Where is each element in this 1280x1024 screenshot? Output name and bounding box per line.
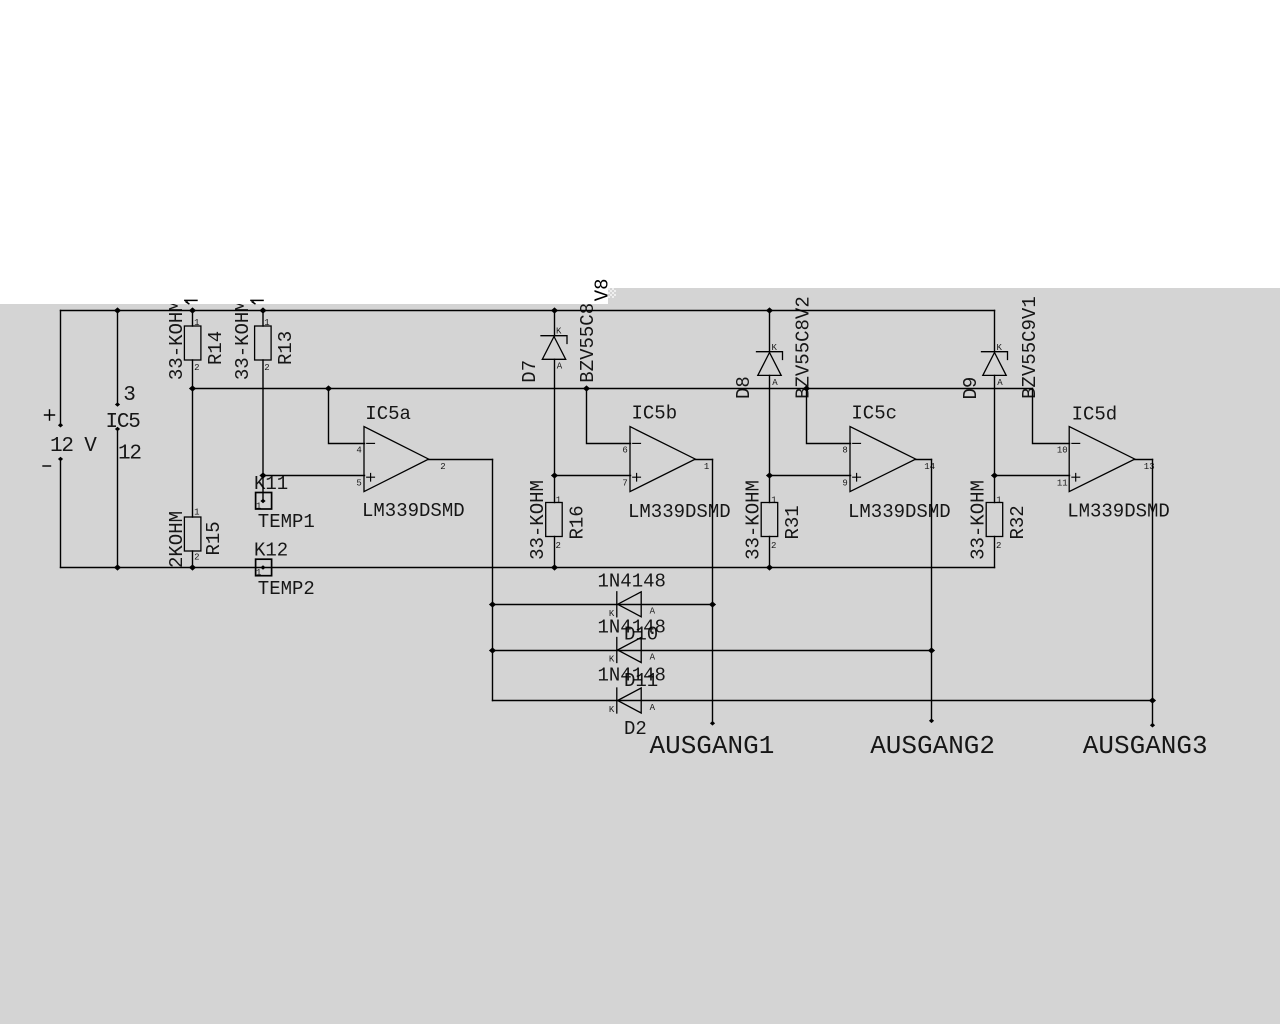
zener diode D8 symbol <box>757 352 783 376</box>
svg-text:R31: R31 <box>782 505 804 539</box>
wire K11 to IC5a plus input <box>263 475 365 477</box>
svg-text:2: 2 <box>556 541 561 551</box>
node junction row2 right IC5c out <box>928 647 935 653</box>
stale checker artifact <box>608 288 616 298</box>
node junction R15 on bottom rail <box>189 564 196 570</box>
battery minus sign <box>43 465 51 467</box>
wire IC5 pin12 stub <box>117 429 119 568</box>
svg-text:D7: D7 <box>519 360 541 383</box>
wire D7 top stub <box>554 311 556 337</box>
svg-text:BZV55C9V1: BZV55C9V1 <box>1019 296 1041 399</box>
node junction R16 on bottom rail <box>551 564 558 570</box>
node junction IC5a minus on mid rail <box>325 385 332 391</box>
node junction IC5c minus on mid rail <box>803 385 810 391</box>
svg-text:9: 9 <box>842 478 847 488</box>
wire diode row 2 <box>493 650 932 652</box>
svg-text:33-KOHM: 33-KOHM <box>527 480 549 560</box>
wire R31 top stub <box>769 476 771 503</box>
wire IC5b minus drop <box>587 389 631 444</box>
op-amp IC5a plus glyph <box>367 473 375 481</box>
svg-text:D9: D9 <box>960 377 982 400</box>
resistor R31 body <box>761 503 778 537</box>
op-amp IC5c minus glyph <box>853 442 861 444</box>
op-amp IC5d minus glyph <box>1072 442 1080 444</box>
wire IC5b output drop AUSGANG1 <box>712 460 714 724</box>
svg-text:D8: D8 <box>733 376 755 399</box>
node junction IC5 pin12 on bottom rail <box>114 564 121 570</box>
svg-text:R14: R14 <box>205 331 227 365</box>
node K12 pin 1 on bottom rail <box>260 565 265 570</box>
wire R14 top stub <box>192 311 194 327</box>
svg-text:2: 2 <box>440 462 445 472</box>
svg-text:LM339DSMD: LM339DSMD <box>1067 501 1170 523</box>
svg-text:LM339DSMD: LM339DSMD <box>362 500 465 522</box>
wire IC5c minus drop <box>807 389 851 444</box>
node battery plus terminal <box>58 423 63 428</box>
resistor R14 body <box>184 326 201 360</box>
svg-text:A: A <box>772 378 778 388</box>
wire R15 bottom stub <box>192 551 194 568</box>
wire IC5a output drop <box>492 460 494 701</box>
diode D10 symbol <box>617 592 641 617</box>
wire R13 to node TEMP1 <box>262 360 264 476</box>
svg-text:2: 2 <box>194 552 199 562</box>
wire D7 anode to node <box>554 359 556 475</box>
node battery minus terminal <box>58 457 63 462</box>
svg-text:K: K <box>772 343 778 353</box>
wire R16 bottom stub <box>554 537 556 568</box>
wire IC5 pin3 stub <box>117 311 119 405</box>
op-amp IC5a triangle <box>364 427 429 492</box>
svg-text:A: A <box>557 361 563 371</box>
battery plus sign <box>45 410 55 420</box>
wire node to IC5d plus input <box>995 475 1070 477</box>
svg-text:33-KOHM: 33-KOHM <box>232 300 254 380</box>
node junction R31 top <box>766 472 773 478</box>
svg-text:TEMP1: TEMP1 <box>258 511 315 533</box>
svg-text:AUSGANG3: AUSGANG3 <box>1083 731 1208 761</box>
svg-text:33-KOHM: 33-KOHM <box>968 480 990 560</box>
wire IC5d output drop AUSGANG3 <box>1152 460 1154 726</box>
svg-text:AUSGANG2: AUSGANG2 <box>870 731 995 761</box>
op-amp IC5d triangle <box>1069 427 1135 492</box>
svg-text:1: 1 <box>556 496 561 506</box>
node junction D8 on top rail <box>766 307 773 313</box>
svg-text:1: 1 <box>194 508 199 518</box>
svg-text:5: 5 <box>356 478 361 488</box>
wire R32 top stub <box>994 476 996 503</box>
svg-text:BZV55C8V2: BZV55C8V2 <box>792 296 814 399</box>
svg-text:1N4148: 1N4148 <box>598 570 666 592</box>
svg-text:6: 6 <box>622 446 627 456</box>
node AUSGANG2 end <box>929 719 934 724</box>
svg-text:1: 1 <box>256 568 261 578</box>
node AUSGANG1 end <box>710 721 715 726</box>
svg-text:1: 1 <box>264 318 269 328</box>
svg-text:33-KOHM: 33-KOHM <box>166 300 188 380</box>
svg-text:11: 11 <box>1057 478 1068 488</box>
svg-text:7: 7 <box>622 478 627 488</box>
svg-text:1: 1 <box>704 462 709 472</box>
svg-text:TEMP2: TEMP2 <box>258 578 315 600</box>
diode D2 symbol <box>617 688 641 713</box>
wire battery minus vertical <box>60 459 62 567</box>
svg-text:IC5d: IC5d <box>1072 404 1118 426</box>
svg-text:14: 14 <box>924 462 935 472</box>
svg-text:K: K <box>556 327 562 337</box>
svg-text:A: A <box>650 607 656 617</box>
node junction IC5 pin3 on top rail <box>114 307 121 313</box>
node junction row2 left IC5a out <box>489 647 496 653</box>
svg-text:1: 1 <box>771 496 776 506</box>
wire R14 bottom stub <box>192 360 194 389</box>
op-amp IC5c plus glyph <box>853 473 861 481</box>
resistor R16 body <box>546 503 563 537</box>
svg-text:K12: K12 <box>254 540 288 562</box>
wire node to IC5b plus input <box>555 475 631 477</box>
node junction D7 on top rail <box>551 307 558 313</box>
svg-text:1N4148: 1N4148 <box>598 665 666 687</box>
svg-text:IC5c: IC5c <box>851 403 897 425</box>
svg-text:AUSGANG1: AUSGANG1 <box>650 731 775 761</box>
diode D11 symbol <box>617 638 641 663</box>
svg-text:2: 2 <box>771 541 776 551</box>
wire D9 anode to node <box>994 375 996 475</box>
wire D8 top stub <box>769 311 771 352</box>
svg-text:LM339DSMD: LM339DSMD <box>848 501 951 523</box>
wire diode row 3 <box>493 700 1153 702</box>
node junction R31 on bottom rail <box>766 564 773 570</box>
svg-text:13: 13 <box>1144 462 1155 472</box>
wire R16 top stub <box>554 476 556 503</box>
wire R15 top stub <box>192 389 194 518</box>
svg-text:2: 2 <box>996 541 1001 551</box>
svg-text:K11: K11 <box>254 473 288 495</box>
zener diode D7 symbol <box>541 336 567 360</box>
svg-text:R13: R13 <box>275 331 297 365</box>
svg-text:IC5b: IC5b <box>632 403 678 425</box>
node junction R32 top <box>991 472 998 478</box>
gray canvas right <box>608 288 1280 1024</box>
svg-text:2: 2 <box>264 363 269 373</box>
svg-text:2: 2 <box>194 363 199 373</box>
wire R13 top stub <box>262 311 264 327</box>
op-amp IC5b minus glyph <box>633 442 641 444</box>
svg-text:K: K <box>609 655 615 665</box>
svg-text:K: K <box>609 705 615 715</box>
resistor R15 body <box>184 517 201 551</box>
svg-text:IC5a: IC5a <box>365 403 411 425</box>
svg-text:D2: D2 <box>624 718 647 740</box>
op-amp IC5b plus glyph <box>633 473 641 481</box>
wire IC5a minus drop <box>329 389 365 444</box>
wire IC5d minus input from rail end <box>1033 389 1070 444</box>
svg-text:1: 1 <box>996 496 1001 506</box>
svg-text:12: 12 <box>118 443 141 466</box>
node TEMP1 junction K11 <box>259 472 266 478</box>
wire IC5c output <box>916 459 932 461</box>
svg-text:4: 4 <box>356 446 361 456</box>
svg-text:V8: V8 <box>592 278 614 301</box>
resistor R32 body <box>986 503 1003 537</box>
wire IC5b output <box>695 459 712 461</box>
svg-text:1: 1 <box>256 502 261 512</box>
node K11 pin 1 <box>260 499 265 504</box>
connector K12 box <box>256 559 272 576</box>
node junction R14 on top rail <box>189 307 196 313</box>
connector K11 box <box>256 493 272 510</box>
wire node to IC5c plus input <box>770 475 851 477</box>
svg-text:A: A <box>650 703 656 713</box>
op-amp IC5b triangle <box>630 427 695 492</box>
svg-text:8: 8 <box>842 446 847 456</box>
node junction row3 right IC5d out <box>1149 697 1156 703</box>
gray canvas left <box>0 304 608 1024</box>
svg-text:3: 3 <box>123 384 135 407</box>
svg-text:R16: R16 <box>567 505 589 539</box>
stale glyph artifact above R14 <box>184 300 198 304</box>
op-amp IC5a minus glyph <box>367 442 375 444</box>
node junction R16 top <box>551 472 558 478</box>
svg-text:A: A <box>650 652 656 662</box>
node IC5 pin12 end <box>115 427 120 432</box>
resistor R13 body <box>255 326 272 360</box>
stale glyph artifact above R13 <box>250 300 264 304</box>
svg-text:A: A <box>997 378 1003 388</box>
svg-text:1: 1 <box>194 318 199 328</box>
node junction R14-R15 on mid rail <box>189 385 196 391</box>
node IC5 pin3 end <box>115 402 120 407</box>
wire IC5c output drop AUSGANG2 <box>931 460 933 721</box>
wire R31 bottom stub <box>769 537 771 568</box>
wire D8 anode to node <box>769 375 771 475</box>
svg-text:R15: R15 <box>203 521 225 555</box>
wire K11 pin drop <box>262 476 264 502</box>
svg-text:12 V: 12 V <box>50 435 97 458</box>
wire R32 bottom stub <box>994 537 996 568</box>
node junction row1 right IC5b out <box>709 601 716 607</box>
zener diode D9 symbol <box>982 352 1008 376</box>
wire bottom rail GND <box>61 567 995 569</box>
wire mid reference rail <box>193 388 1033 390</box>
op-amp IC5d plus glyph <box>1072 473 1080 481</box>
wire IC5a output <box>429 459 493 461</box>
wire D9 top stub <box>994 311 996 352</box>
wire battery plus vertical <box>60 311 62 426</box>
svg-text:2KOHM: 2KOHM <box>166 511 188 568</box>
svg-text:IC5: IC5 <box>106 411 141 434</box>
node junction IC5b minus on mid rail <box>583 385 590 391</box>
wire IC5d output <box>1135 459 1153 461</box>
node AUSGANG3 end <box>1150 723 1155 728</box>
svg-text:K: K <box>997 343 1003 353</box>
wire top rail V+ <box>61 310 995 312</box>
svg-text:R32: R32 <box>1007 505 1029 539</box>
svg-text:10: 10 <box>1057 446 1068 456</box>
node junction row1 left IC5a out <box>489 601 496 607</box>
svg-text:33-KOHM: 33-KOHM <box>743 480 765 560</box>
op-amp IC5c triangle <box>850 427 916 492</box>
wire diode row 1 <box>493 604 713 606</box>
svg-text:LM339DSMD: LM339DSMD <box>628 501 731 523</box>
svg-text:1N4148: 1N4148 <box>598 617 666 639</box>
node junction R13 on top rail <box>259 307 266 313</box>
